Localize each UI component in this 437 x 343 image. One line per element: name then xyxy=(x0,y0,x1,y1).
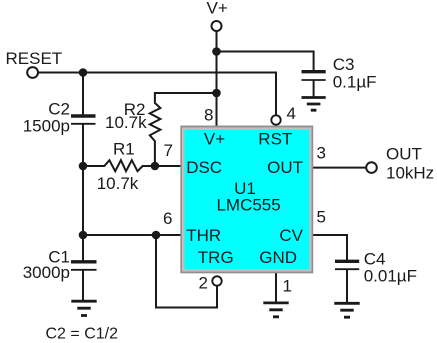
wire RESET net horizontal to pin 4 xyxy=(38,73,276,115)
junction V+/C3 node xyxy=(212,47,221,56)
wire V+ rail vertical (pin 8 net) xyxy=(216,31,218,126)
terminal V+ xyxy=(212,21,222,31)
svg-text:TRG: TRG xyxy=(198,248,234,267)
wire pin 5 to C4 xyxy=(313,235,347,260)
junction THR/TRG node xyxy=(152,231,161,240)
terminal OUT xyxy=(366,162,377,173)
svg-text:7: 7 xyxy=(164,141,173,160)
capacitor C3 0.1uF xyxy=(302,72,326,80)
junction left rail/R1 node xyxy=(79,162,88,171)
junction V+/R2 node xyxy=(212,89,221,98)
svg-text:2: 2 xyxy=(199,274,208,293)
svg-text:LMC555: LMC555 xyxy=(216,196,280,215)
junction left rail/THR node xyxy=(79,231,88,240)
op-amp U1 IC box fill xyxy=(183,129,310,271)
svg-text:3000p: 3000p xyxy=(23,263,70,282)
wire TRG return (pin 2 to THR node) xyxy=(156,235,217,308)
capacitor C1 3000p xyxy=(71,262,97,270)
resistor R2 10.7k vertical xyxy=(150,93,161,166)
svg-text:1: 1 xyxy=(283,277,292,296)
svg-text:10.7k: 10.7k xyxy=(105,113,147,132)
svg-text:1500p: 1500p xyxy=(23,117,70,136)
svg-text:OUT: OUT xyxy=(267,158,303,177)
svg-text:CV: CV xyxy=(279,226,303,245)
wire C4 to ground xyxy=(346,270,348,302)
pin 2 inversion bubble xyxy=(212,276,221,285)
capacitor C4 0.01uF xyxy=(335,261,359,269)
wire C3 to ground xyxy=(313,82,315,97)
svg-text:6: 6 xyxy=(163,209,172,228)
resistor R1 10.7k horizontal xyxy=(83,160,181,171)
wire R2 top connection xyxy=(155,92,217,94)
svg-text:5: 5 xyxy=(317,208,326,227)
junction R1/R2 pin7 node xyxy=(151,162,160,171)
svg-text:C3: C3 xyxy=(333,55,355,74)
svg-text:RST: RST xyxy=(258,130,292,149)
wire pin 1 to ground xyxy=(275,273,277,301)
ground (C1) xyxy=(71,301,96,315)
svg-text:10.7k: 10.7k xyxy=(97,174,139,193)
svg-text:10kHz: 10kHz xyxy=(386,164,434,183)
wire pin 3 to OUT terminal xyxy=(313,167,366,169)
svg-text:GND: GND xyxy=(259,248,297,267)
op-amp U1 IC box outer border xyxy=(181,127,312,273)
svg-text:OUT: OUT xyxy=(386,145,422,164)
svg-text:4: 4 xyxy=(287,104,296,123)
wire left rail (C2 / R1 / THR / C1) xyxy=(82,73,84,300)
svg-text:V+: V+ xyxy=(207,0,228,18)
svg-text:C2 = C1/2: C2 = C1/2 xyxy=(46,325,119,342)
svg-text:THR: THR xyxy=(186,226,221,245)
junction RESET/C2 node xyxy=(79,68,88,77)
svg-text:3: 3 xyxy=(317,144,326,163)
wire C3 branch from V+ rail xyxy=(217,52,314,71)
svg-text:DSC: DSC xyxy=(186,158,222,177)
ground (pin 1 GND) xyxy=(263,303,288,317)
pin 4 inversion bubble xyxy=(271,115,280,124)
ground (C3) xyxy=(302,98,326,111)
capacitor C2 1500p xyxy=(71,116,96,124)
wire THR (pin 6) xyxy=(83,234,181,236)
svg-text:0.01µF: 0.01µF xyxy=(364,267,417,286)
terminal RESET xyxy=(27,67,38,78)
svg-text:R1: R1 xyxy=(113,140,135,159)
svg-text:V+: V+ xyxy=(204,130,225,149)
svg-text:0.1µF: 0.1µF xyxy=(333,73,377,92)
svg-text:8: 8 xyxy=(204,105,213,124)
ground (C4) xyxy=(334,303,359,317)
svg-text:RESET: RESET xyxy=(6,49,63,68)
